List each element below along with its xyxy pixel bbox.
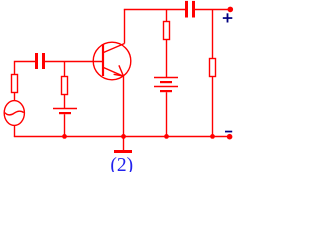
battery B1 short thick plate 1: [160, 81, 172, 83]
wire top rail left section: [124, 9, 185, 11]
junction node emitter: [121, 134, 126, 139]
svg-text:(2): (2): [110, 155, 133, 172]
wire B1 to bottom rail: [166, 92, 168, 137]
junction node R4: [210, 134, 215, 139]
resistor R2: [62, 77, 68, 95]
transistor Q1 circle: [93, 42, 131, 80]
terminal dot bottom right: [227, 134, 233, 140]
resistor R3: [164, 22, 170, 40]
source V1 ellipse: [4, 101, 24, 126]
wire right column top: [212, 10, 214, 59]
junction node battery B1: [164, 134, 169, 139]
battery B2 short thick plate: [59, 112, 71, 114]
wire C1 to transistor base: [45, 61, 103, 63]
wire R1 to source: [14, 93, 16, 101]
resistor R1: [12, 75, 18, 93]
transistor Q1 emitter lead: [104, 68, 124, 77]
battery B1 long plate 2: [154, 86, 178, 88]
terminal dot top right: [228, 7, 234, 13]
source V1 sine wave: [5, 111, 24, 115]
ground bar: [114, 150, 132, 153]
plus label: [223, 13, 233, 22]
battery B2 long plate: [53, 108, 77, 110]
battery B1 short thick plate 2: [160, 90, 172, 92]
transistor Q1 base bar: [102, 44, 104, 76]
wire input corner to C1: [15, 62, 36, 75]
capacitor C1: [35, 53, 45, 69]
wire R2 to battery B2: [64, 95, 66, 109]
capacitor C2: [185, 1, 195, 18]
wire emitter down: [123, 76, 125, 137]
battery B1 long plate 1: [154, 77, 178, 79]
minus label: [225, 131, 232, 133]
wire R4 to bottom rail: [212, 77, 214, 138]
transistor Q1 emitter arrow barb lower: [114, 74, 124, 76]
ground stub: [123, 137, 125, 151]
wire bias tap down from base wire: [64, 62, 66, 77]
transistor Q1 collector lead: [104, 44, 125, 53]
wire mid column top: [166, 10, 168, 22]
resistor R4: [210, 59, 216, 77]
wire collector up: [124, 10, 126, 44]
transistor Q1 emitter arrow barb upper: [119, 65, 124, 76]
wire top rail right section: [195, 9, 230, 11]
wire B2 to bottom rail: [64, 114, 66, 137]
junction node bias column: [62, 134, 67, 139]
wire bottom rail: [14, 136, 230, 138]
wire R3 to battery B1: [166, 40, 168, 78]
wire source to bottom rail: [14, 125, 16, 137]
